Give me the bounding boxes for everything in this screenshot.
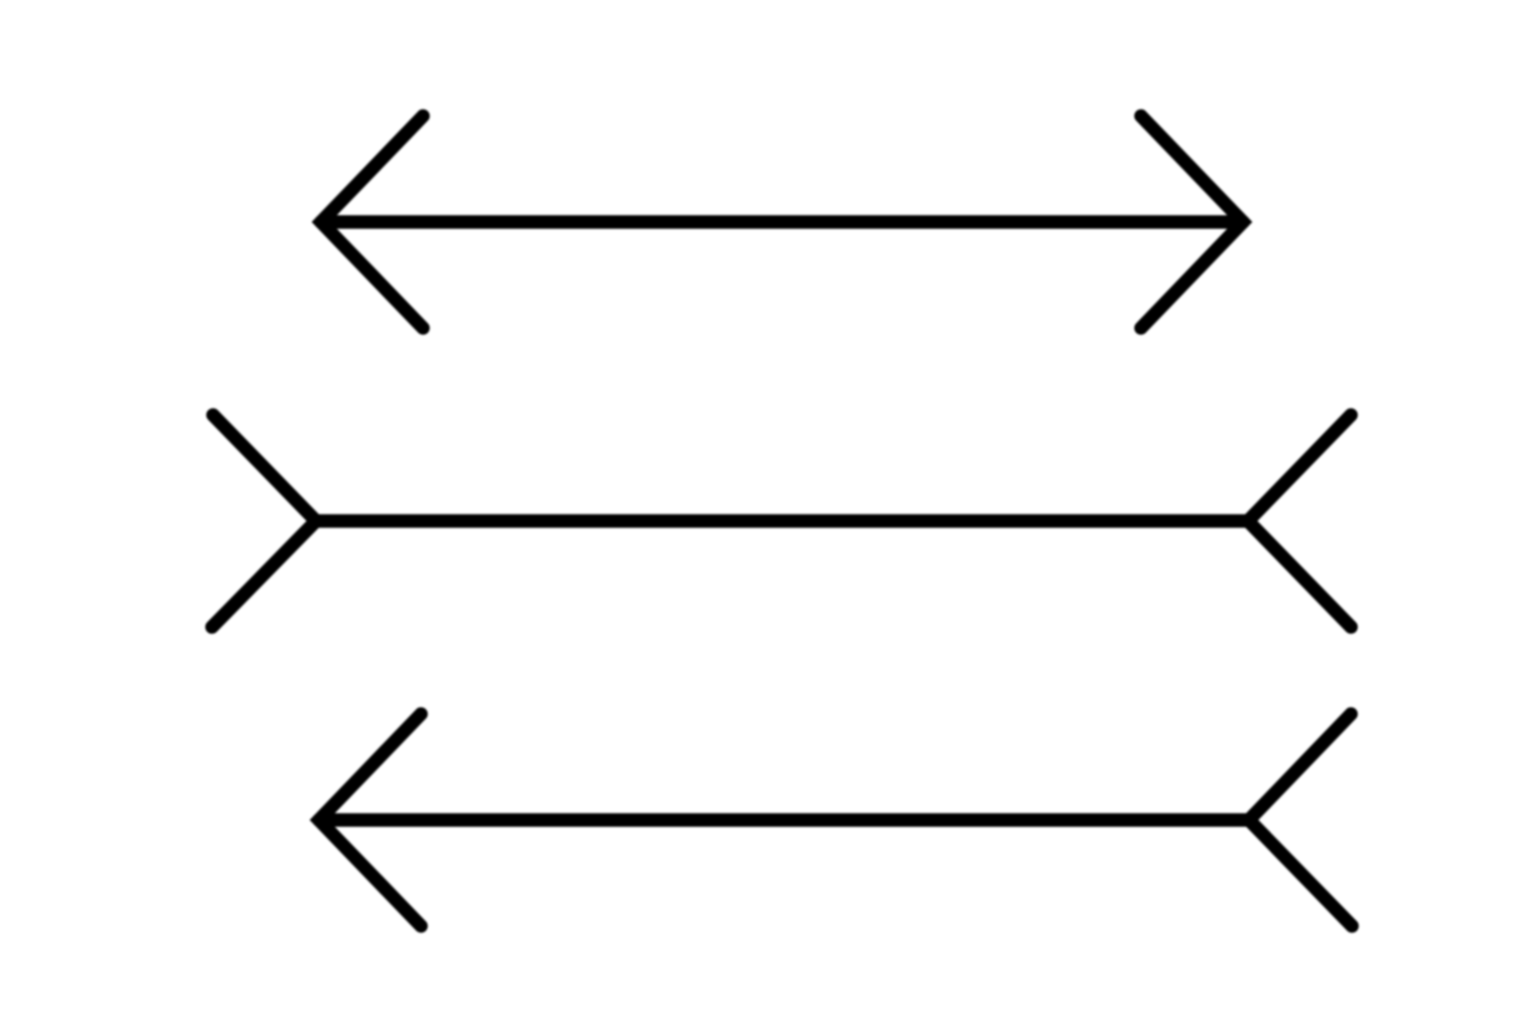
top-right arrowhead (fins point left, vertex right) bbox=[1141, 116, 1243, 328]
bottom-right tail (fins open right) bbox=[1249, 714, 1352, 926]
middle-right tail (fins open right) bbox=[1248, 415, 1351, 627]
middle-left tail (fins open left) bbox=[212, 415, 316, 627]
top shaft (line 1) bbox=[321, 215, 1243, 229]
middle shaft (line 2) bbox=[316, 514, 1248, 528]
bottom-left arrowhead (fins point right, vertex left) bbox=[319, 714, 421, 926]
bottom shaft (line 3) bbox=[319, 813, 1249, 827]
top-left arrowhead (fins point right, vertex left) bbox=[321, 116, 423, 328]
